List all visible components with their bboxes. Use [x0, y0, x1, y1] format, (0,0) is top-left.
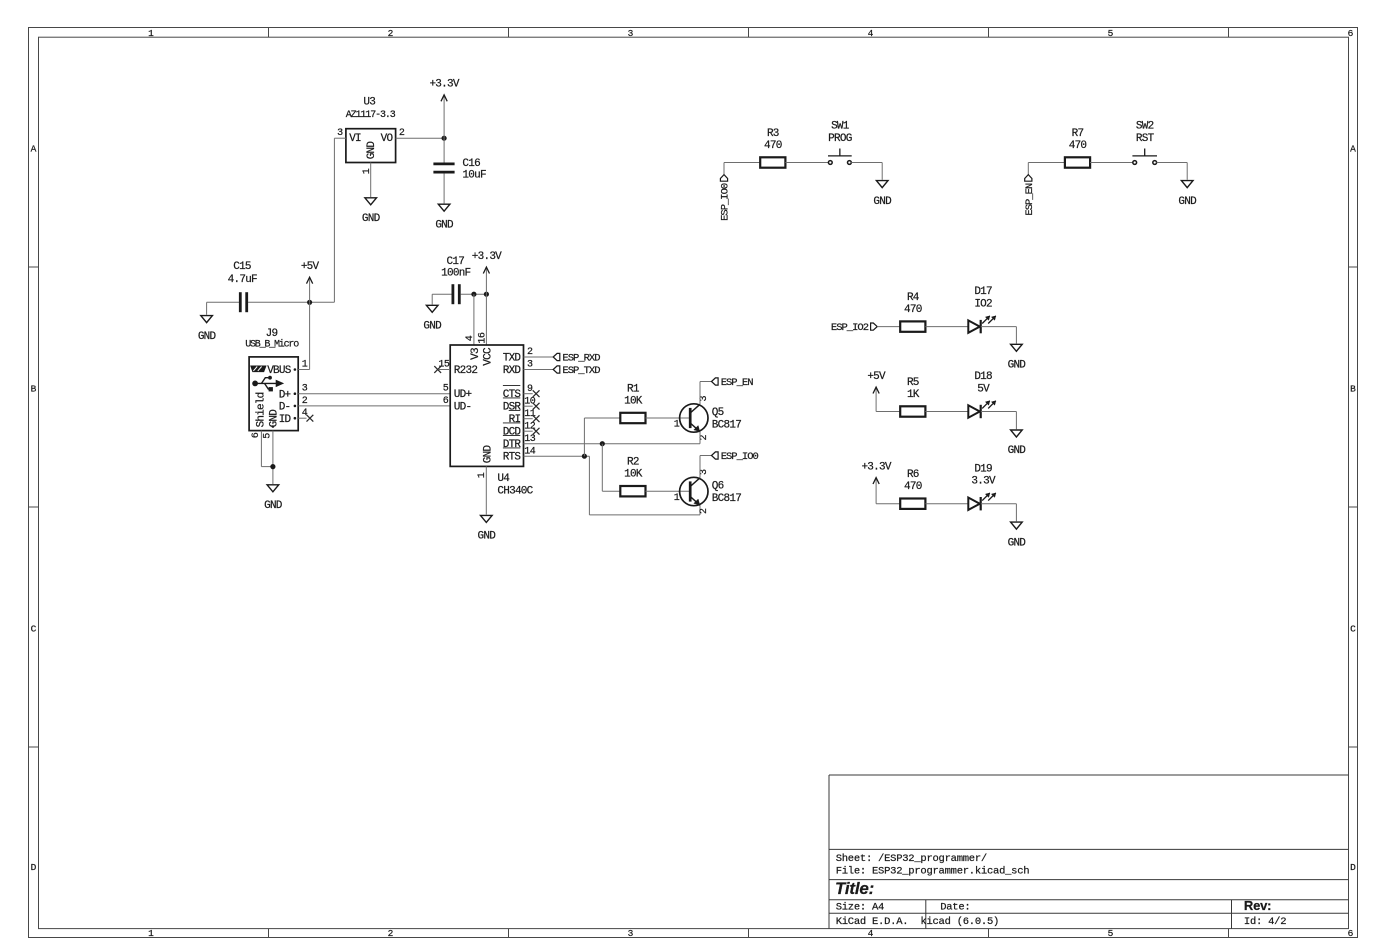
svg-text:R5: R5	[907, 377, 919, 389]
svg-text:VO: VO	[381, 133, 394, 145]
svg-text:5: 5	[263, 433, 274, 439]
svg-text:Title:: Title:	[835, 879, 874, 898]
svg-text:V3: V3	[470, 348, 482, 360]
svg-text:GND: GND	[873, 196, 892, 208]
svg-text:R3: R3	[767, 128, 779, 140]
svg-text:ESP_IO2: ESP_IO2	[831, 322, 869, 334]
svg-text:ESP_TXD: ESP_TXD	[562, 365, 600, 377]
svg-text:File: ESP32_programmer.kicad_s: File: ESP32_programmer.kicad_sch	[836, 866, 1030, 878]
svg-text:470: 470	[1069, 140, 1087, 152]
svg-text:4: 4	[868, 928, 874, 939]
svg-text:RXD: RXD	[503, 365, 522, 377]
svg-text:GND: GND	[1178, 196, 1197, 208]
svg-text:BC817: BC817	[712, 493, 741, 505]
svg-text:R2: R2	[627, 457, 639, 469]
svg-text:4: 4	[465, 335, 476, 341]
svg-text:GND: GND	[198, 331, 217, 343]
svg-text:2: 2	[699, 435, 710, 441]
svg-text:Q6: Q6	[712, 481, 724, 493]
svg-text:3.3V: 3.3V	[971, 476, 996, 488]
svg-text:D17: D17	[974, 286, 992, 298]
svg-text:6: 6	[251, 432, 262, 438]
svg-text:DTR: DTR	[503, 439, 522, 451]
svg-text:470: 470	[904, 304, 922, 316]
svg-text:C15: C15	[233, 261, 251, 273]
svg-text:1: 1	[148, 28, 154, 39]
svg-text:D19: D19	[974, 463, 992, 475]
svg-text:2: 2	[388, 928, 394, 939]
svg-text:5: 5	[1108, 28, 1114, 39]
svg-text:C17: C17	[447, 256, 465, 268]
svg-text:Rev:: Rev:	[1244, 898, 1271, 913]
svg-text:+5V: +5V	[301, 261, 320, 273]
svg-text:VBUS: VBUS	[267, 365, 292, 377]
svg-text:4: 4	[302, 408, 308, 419]
svg-text:470: 470	[904, 481, 922, 493]
svg-text:A: A	[1350, 143, 1356, 154]
svg-text:GND: GND	[1008, 360, 1027, 372]
svg-text:GND: GND	[478, 531, 497, 543]
svg-text:USB_B_Micro: USB_B_Micro	[245, 338, 299, 350]
svg-text:10K: 10K	[624, 469, 643, 481]
svg-text:5V: 5V	[977, 383, 990, 395]
svg-text:2: 2	[699, 508, 710, 514]
svg-text:D18: D18	[974, 371, 992, 383]
svg-text:+3.3V: +3.3V	[861, 461, 891, 473]
svg-text:6: 6	[1348, 928, 1354, 939]
svg-text:RST: RST	[1136, 133, 1155, 145]
svg-text:R6: R6	[907, 469, 919, 481]
svg-text:GND: GND	[482, 444, 494, 463]
svg-text:R4: R4	[907, 292, 920, 304]
svg-text:6: 6	[443, 396, 449, 407]
svg-text:16: 16	[478, 332, 489, 344]
svg-text:UD+: UD+	[454, 389, 472, 401]
svg-text:2: 2	[388, 28, 394, 39]
svg-text:3: 3	[699, 396, 710, 402]
svg-text:1: 1	[674, 419, 680, 430]
svg-text:VCC: VCC	[482, 347, 494, 366]
svg-text:U3: U3	[363, 96, 375, 108]
svg-text:ESP_IO0: ESP_IO0	[721, 451, 759, 463]
svg-text:CH340C: CH340C	[497, 485, 533, 497]
svg-text:GND: GND	[423, 321, 442, 333]
svg-text:10K: 10K	[624, 395, 643, 407]
svg-text:SW1: SW1	[831, 121, 850, 133]
svg-text:3: 3	[628, 928, 634, 939]
svg-text:1K: 1K	[907, 389, 920, 401]
svg-text:GND: GND	[366, 141, 378, 160]
svg-text:Id: 4/2: Id: 4/2	[1244, 916, 1286, 928]
svg-text:D: D	[1350, 862, 1356, 873]
svg-text:PROG: PROG	[828, 133, 852, 145]
svg-text:1: 1	[148, 928, 154, 939]
svg-text:SW2: SW2	[1136, 121, 1154, 133]
svg-text:1: 1	[477, 472, 488, 478]
svg-text:1: 1	[362, 168, 373, 174]
svg-text:D+: D+	[279, 389, 291, 401]
svg-text:RI: RI	[509, 414, 521, 426]
svg-text:GND: GND	[268, 409, 280, 428]
svg-text:3: 3	[337, 128, 343, 139]
svg-text:R232: R232	[454, 365, 478, 377]
svg-text:DSR: DSR	[503, 402, 522, 414]
svg-text:Q5: Q5	[712, 407, 724, 419]
svg-text:100nF: 100nF	[441, 267, 470, 279]
svg-text:KiCad E.D.A. kicad (6.0.5): KiCad E.D.A. kicad (6.0.5)	[836, 916, 999, 928]
svg-text:TXD: TXD	[503, 353, 522, 365]
svg-text:J9: J9	[266, 328, 278, 340]
svg-text:+3.3V: +3.3V	[429, 79, 459, 91]
svg-text:2: 2	[399, 128, 405, 139]
svg-text:Shield: Shield	[256, 392, 268, 427]
svg-text:B: B	[31, 383, 37, 394]
svg-text:4: 4	[868, 28, 874, 39]
svg-text:U4: U4	[497, 473, 510, 485]
svg-text:+5V: +5V	[867, 371, 886, 383]
svg-text:BC817: BC817	[712, 419, 741, 431]
svg-text:6: 6	[1348, 28, 1354, 39]
svg-text:3: 3	[302, 384, 308, 395]
svg-text:RTS: RTS	[503, 452, 522, 464]
svg-text:ESP_EN: ESP_EN	[721, 377, 754, 389]
svg-text:Date:: Date:	[940, 902, 970, 914]
svg-text:15: 15	[438, 360, 450, 371]
svg-text:4.7uF: 4.7uF	[228, 274, 257, 286]
svg-text:GND: GND	[1008, 537, 1027, 549]
svg-text:GND: GND	[362, 213, 381, 225]
svg-text:Sheet: /ESP32_programmer/: Sheet: /ESP32_programmer/	[836, 853, 987, 865]
svg-text:10uF: 10uF	[462, 170, 486, 182]
svg-text:D-: D-	[279, 402, 291, 414]
svg-text:GND: GND	[1008, 445, 1027, 457]
svg-text:R7: R7	[1072, 128, 1084, 140]
svg-text:AZ1117-3.3: AZ1117-3.3	[346, 110, 396, 121]
svg-text:5: 5	[443, 384, 449, 395]
svg-text:3: 3	[628, 28, 634, 39]
svg-text:1: 1	[302, 360, 308, 371]
svg-text:5: 5	[1108, 928, 1114, 939]
svg-text:C16: C16	[462, 158, 480, 170]
svg-text:3: 3	[699, 469, 710, 475]
svg-text:+3.3V: +3.3V	[472, 251, 502, 263]
svg-text:CTS: CTS	[503, 389, 522, 401]
svg-text:1: 1	[674, 493, 680, 504]
svg-text:C: C	[31, 623, 37, 634]
svg-text:IO2: IO2	[974, 298, 992, 310]
svg-text:C: C	[1350, 623, 1356, 634]
svg-text:Size: A4: Size: A4	[836, 902, 884, 914]
svg-text:UD-: UD-	[454, 402, 472, 414]
svg-text:GND: GND	[264, 500, 283, 512]
svg-text:VI: VI	[349, 133, 361, 145]
svg-text:D: D	[31, 862, 37, 873]
svg-text:ID: ID	[279, 414, 292, 426]
svg-text:DCD: DCD	[503, 427, 522, 439]
svg-text:470: 470	[764, 140, 782, 152]
svg-text:2: 2	[302, 396, 308, 407]
svg-text:ESP_IO0: ESP_IO0	[720, 183, 732, 221]
svg-text:B: B	[1350, 383, 1356, 394]
svg-text:GND: GND	[435, 219, 454, 231]
svg-text:R1: R1	[627, 383, 640, 395]
svg-text:ESP_RXD: ESP_RXD	[562, 353, 600, 365]
svg-text:A: A	[31, 143, 37, 154]
svg-text:ESP_EN: ESP_EN	[1024, 183, 1036, 216]
